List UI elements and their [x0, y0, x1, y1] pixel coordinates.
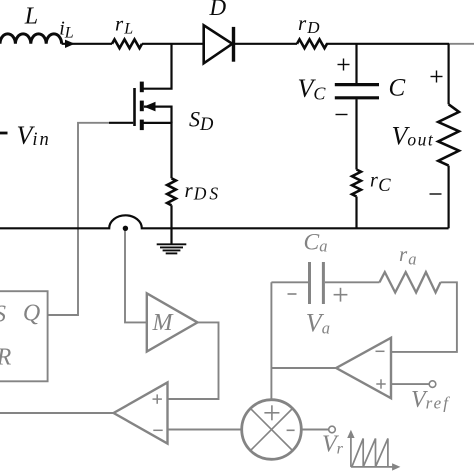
svg-text:SD: SD: [189, 106, 214, 135]
wire top rail (rD to load): [326, 43, 449, 45]
svg-text:Vout: Vout: [392, 122, 435, 151]
gain block M: [147, 293, 198, 351]
wire gate drive (Q output up to MOSFET gate): [48, 123, 109, 315]
svg-text:rC: rC: [370, 170, 391, 196]
black labels: [17, 0, 435, 203]
wire top rail (rL to diode): [142, 43, 204, 45]
resistor rD: [297, 39, 327, 48]
channel bar top: [140, 82, 144, 93]
plus Vout: [431, 76, 443, 78]
minus VC: [336, 114, 348, 116]
svg-text:M: M: [152, 310, 175, 336]
svg-text:rDS: rDS: [185, 178, 222, 204]
wire top rail (diode to rD): [234, 43, 298, 45]
svg-text:rD: rD: [298, 11, 320, 37]
wire Vout sense (top right, off-page): [449, 43, 474, 45]
resistor ra: [380, 272, 441, 292]
svg-text:ra: ra: [399, 242, 416, 268]
arrow iL: [65, 40, 75, 48]
wire M output to comparator + input: [168, 322, 219, 399]
svg-text:C: C: [389, 75, 406, 102]
resistor rDS: [167, 178, 176, 205]
capacitor Ca: [271, 281, 308, 283]
wire comparator output: [0, 412, 114, 414]
svg-text:Vr: Vr: [322, 432, 344, 458]
svg-text:Ca: Ca: [304, 229, 328, 255]
wire error-amp output: [271, 367, 336, 369]
svg-text:S: S: [0, 302, 6, 328]
channel bar middle: [140, 101, 144, 112]
svg-text:R: R: [0, 345, 12, 371]
resistor rC: [352, 170, 361, 197]
gray labels: [0, 229, 450, 457]
load branch / resistor R: [448, 44, 450, 105]
svg-text:Vref: Vref: [411, 387, 450, 413]
wire multiplier top to error-amp output node: [270, 282, 272, 399]
svg-text:VC: VC: [298, 74, 327, 103]
ground: [170, 228, 172, 244]
plus VC: [338, 64, 350, 66]
multiplier X1: [242, 400, 302, 460]
wire op-amp - input feedback: [391, 282, 457, 352]
RS flip-flop U1 box: [0, 291, 48, 381]
capacitor C branch: [355, 44, 357, 83]
op-amp U3 error amplifier: [336, 338, 391, 398]
wire current-sense (dot down to M input): [125, 228, 147, 322]
wire rDS to bottom rail: [170, 205, 172, 228]
Vin minus lead: [0, 132, 8, 135]
terminal Vref: [429, 381, 436, 388]
wire multiplier right to Vr terminal: [301, 429, 328, 431]
node sensor dot: [123, 226, 128, 231]
body tap with arrow: [144, 107, 172, 123]
wire top rail (L to rL): [62, 43, 112, 45]
svg-text:rL: rL: [115, 12, 133, 38]
plus/minus signs black: [336, 59, 443, 195]
wire op-amp + input to Vref terminal: [391, 383, 429, 385]
gate lead: [109, 122, 133, 124]
svg-text:Va: Va: [306, 309, 330, 338]
channel bar bottom: [140, 120, 144, 131]
comparator U2: [114, 382, 168, 443]
resistor rL: [112, 39, 142, 48]
svg-text:L: L: [24, 3, 38, 29]
sawtooth Vr waveform icon: [351, 435, 395, 467]
drain tap: [142, 44, 172, 89]
source tap: [142, 123, 172, 178]
gate bar: [133, 88, 136, 126]
inductor L: [0, 34, 62, 44]
diode D: [204, 25, 233, 63]
wire bottom rail with sensor bump: [0, 215, 449, 228]
svg-text:Vin: Vin: [17, 121, 51, 150]
svg-text:iL: iL: [59, 18, 74, 42]
minus Vout: [430, 193, 442, 195]
wire comparator - input to multiplier: [168, 429, 242, 431]
terminal Vr: [329, 426, 336, 433]
svg-text:Q: Q: [23, 301, 40, 327]
svg-text:D: D: [209, 0, 227, 20]
